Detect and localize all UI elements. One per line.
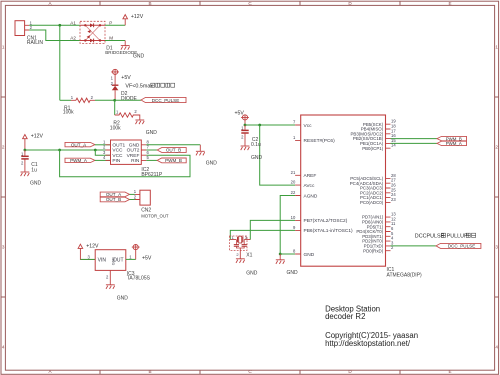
wire XTAL1 pin9 to resonator: [230, 230, 295, 239]
svg-text:1: 1: [2, 45, 5, 50]
svg-text:2: 2: [2, 145, 5, 150]
svg-text:3: 3: [2, 245, 5, 250]
wire OUT_B to CN2 pin2: [130, 199, 135, 201]
svg-text:OUT1: OUT1: [112, 143, 125, 149]
connector CN2: [134, 189, 169, 218]
svg-text:0.1u: 0.1u: [251, 142, 261, 148]
microcontroller IC1 ATMEGA8: [291, 115, 422, 278]
svg-text:7: 7: [293, 120, 296, 125]
svg-text:AVcc: AVcc: [304, 183, 315, 189]
svg-text:1: 1: [293, 135, 296, 140]
wire PWM_A to pin4: [95, 159, 111, 161]
wire pin5 to PWM_B: [146, 159, 157, 161]
label flag OUT_A (CN2): [100, 192, 129, 197]
svg-text:VCC: VCC: [112, 153, 123, 159]
svg-text:DCC_PULSE: DCC_PULSE: [152, 98, 180, 103]
wire pin3 TxD to DCC_PULSE: [391, 245, 437, 247]
svg-text:5: 5: [147, 155, 150, 160]
diode D2: [111, 75, 138, 102]
svg-text:1: 1: [71, 95, 74, 100]
svg-text:VIN: VIN: [98, 258, 107, 264]
svg-text:Vcc: Vcc: [304, 123, 313, 129]
capacitor C1: [21, 150, 38, 173]
svg-text:1: 1: [495, 45, 498, 50]
svg-text:+5V: +5V: [121, 75, 131, 81]
ground (IC1 GND/AGND): [279, 254, 281, 260]
svg-text:PULLUP: PULLUP: [447, 234, 468, 240]
wire pin15 to PWM_A: [391, 142, 438, 144]
svg-text:B: B: [148, 369, 151, 374]
wire junction down to R2: [114, 100, 116, 115]
wire VREF loop: [60, 150, 190, 177]
svg-text:2: 2: [495, 145, 498, 150]
svg-text:GND: GND: [30, 180, 42, 186]
ground (IC2 pin8): [199, 145, 201, 152]
svg-text:RIN: RIN: [131, 158, 140, 164]
label flag PWM_A (IC2): [65, 158, 95, 163]
svg-text:http://desktopstation.net/: http://desktopstation.net/: [325, 339, 411, 348]
resistor R2: [110, 109, 140, 131]
wire gnd junction to pin8: [280, 253, 295, 255]
supply +5V (clamp): [111, 69, 119, 74]
svg-text:AGND: AGND: [304, 193, 318, 199]
svg-text:10: 10: [291, 215, 296, 220]
wire +12V rail to IC2 pin2: [25, 149, 111, 151]
note DCCPULSE PULLUP: [415, 233, 476, 239]
wire OUT_A to pin1: [95, 144, 111, 146]
svg-text:4: 4: [103, 155, 106, 160]
svg-text:PWM_A: PWM_A: [446, 141, 462, 146]
svg-text:1: 1: [111, 76, 114, 81]
svg-text:100k: 100k: [63, 109, 74, 115]
svg-text:VREF: VREF: [127, 153, 140, 159]
label flag DCC_PULSE (right): [436, 243, 481, 248]
svg-text:3: 3: [88, 254, 91, 259]
svg-text:decoder R2: decoder R2: [325, 312, 365, 321]
svg-text:MOTOR_OUT: MOTOR_OUT: [141, 213, 169, 218]
label flag PWM_B (IC1): [437, 136, 467, 141]
wire +5V rail to Vcc pin7: [245, 124, 295, 126]
supply +5V (C2): [241, 115, 249, 120]
svg-text:M: M: [109, 36, 113, 41]
node GND junction: [279, 253, 282, 256]
wire CN1 pin1 to bridge A1: [29, 24, 80, 26]
node +12V/C1 junction: [24, 149, 27, 152]
svg-text:100k: 100k: [110, 126, 121, 132]
svg-text:OUT_B: OUT_B: [166, 148, 181, 153]
ground (C1): [21, 172, 30, 176]
wire XTAL2 pin10 to resonator: [250, 220, 295, 239]
svg-text:GND: GND: [117, 295, 129, 301]
wire junction down to R1: [59, 25, 61, 100]
svg-text:PB7(XTAL2/TOSC2): PB7(XTAL2/TOSC2): [304, 218, 348, 224]
supply +12V (bridge): [124, 19, 126, 26]
svg-text:B: B: [148, 1, 151, 6]
wire AGND to gnd rail: [280, 196, 295, 255]
svg-text:PB6(XTAL1-in/TOSC1): PB6(XTAL1-in/TOSC1): [304, 228, 354, 234]
svg-text:PC0(ADC0): PC0(ADC0): [360, 200, 384, 205]
svg-text:2: 2: [21, 160, 24, 165]
svg-text:2: 2: [241, 135, 244, 140]
label flag OUT_B (CN2): [100, 197, 129, 202]
wire CN1 pin2 to bridge A2: [29, 30, 80, 41]
supply +5V (IC3): [135, 250, 137, 260]
svg-text:+12V: +12V: [131, 14, 144, 20]
node AVcc branch junction: [258, 124, 261, 127]
svg-text:OUT_B: OUT_B: [106, 197, 121, 202]
supply +12V (IC2): [23, 135, 28, 139]
svg-text:X1: X1: [246, 252, 252, 258]
ground (IC3): [109, 270, 111, 284]
svg-text:GND: GND: [129, 143, 140, 149]
svg-text:9: 9: [293, 225, 296, 230]
ground (R2): [135, 120, 144, 124]
ground (bridge M): [124, 41, 126, 46]
wire +12V to IC3 VIN: [80, 258, 95, 260]
svg-text:GND: GND: [304, 252, 315, 258]
svg-text:RESET#(PC6): RESET#(PC6): [304, 138, 336, 144]
svg-text:E: E: [448, 1, 451, 6]
svg-text:+5V: +5V: [235, 110, 245, 116]
bridge rectifier D1: [70, 20, 137, 55]
svg-text:TA78L05S: TA78L05S: [127, 276, 151, 282]
node D2/R1/R2 junction: [113, 99, 116, 102]
svg-text:GND: GND: [251, 155, 263, 161]
svg-text:BP6211P: BP6211P: [141, 172, 162, 178]
svg-text:+12V: +12V: [31, 134, 44, 140]
svg-text:1u: 1u: [31, 167, 37, 173]
svg-text:1: 1: [116, 110, 119, 115]
svg-text:PIN: PIN: [112, 158, 121, 164]
svg-text:2: 2: [91, 95, 94, 100]
svg-text:VCC: VCC: [112, 148, 123, 154]
svg-text:GND: GND: [287, 270, 299, 276]
svg-text:2: 2: [236, 252, 239, 257]
ground (X1): [236, 259, 245, 263]
svg-text:3: 3: [495, 245, 498, 250]
svg-text:22: 22: [291, 190, 296, 195]
wire bridge M to gnd: [105, 40, 125, 42]
regulator IC3: [88, 250, 151, 282]
svg-text:PWM_A: PWM_A: [70, 158, 88, 163]
wire pin16 to PWM_B: [391, 138, 438, 140]
ground (C2): [241, 146, 250, 150]
svg-text:+12V: +12V: [86, 244, 99, 250]
wire bridge P to +12V: [105, 24, 125, 26]
connector CN1: [15, 20, 43, 46]
wire junction to DCC_PULSE flag: [115, 99, 141, 101]
svg-text:GND: GND: [112, 257, 116, 265]
svg-text:8: 8: [293, 249, 296, 254]
wire VCC branch to IC2 pin3: [95, 150, 110, 155]
label flag PWM_B (IC2): [157, 158, 186, 163]
svg-text:DCC_PULSE: DCC_PULSE: [448, 244, 476, 249]
junction node on A1 wire: [58, 24, 61, 27]
svg-text:A1: A1: [70, 20, 76, 25]
wire OUT_A to CN2 pin1: [130, 193, 135, 195]
svg-text:4: 4: [495, 345, 498, 350]
wire pin8 to gnd: [146, 144, 200, 146]
wire IC3 OUT to +5V: [126, 258, 136, 260]
svg-text:+5V: +5V: [142, 256, 152, 262]
wire pin7 to OUT_B: [146, 149, 157, 151]
supply +12V (IC3): [78, 244, 83, 248]
svg-text:GND: GND: [206, 161, 218, 167]
node VREF branch junction: [58, 149, 61, 152]
svg-text:GND: GND: [133, 53, 145, 59]
svg-text:A2: A2: [70, 36, 76, 41]
svg-text:P: P: [109, 20, 112, 25]
svg-text:E: E: [448, 369, 451, 374]
capacitor C2: [241, 125, 261, 148]
note VF<0.5max: [125, 83, 174, 89]
svg-text:2: 2: [30, 25, 33, 30]
node +5V/C2 junction: [244, 124, 247, 127]
svg-text:PB0(ICP1): PB0(ICP1): [362, 146, 384, 151]
svg-text:VF<0.5max: VF<0.5max: [125, 83, 153, 89]
resistor R1: [60, 95, 115, 115]
node VCC branch junction: [94, 149, 97, 152]
svg-text:DIODE: DIODE: [121, 96, 138, 102]
svg-text:DCCPULSE: DCCPULSE: [415, 234, 445, 240]
label flag PWM_A (IC1): [437, 141, 467, 146]
svg-text:23: 23: [391, 197, 396, 202]
svg-text:PWM_B: PWM_B: [165, 158, 182, 163]
svg-text:2: 2: [134, 109, 137, 114]
title text block: [325, 304, 418, 348]
svg-text:1: 1: [129, 254, 132, 259]
svg-text:PD0(RxD): PD0(RxD): [363, 248, 384, 253]
svg-text:ATMEGA8(DIP): ATMEGA8(DIP): [387, 272, 423, 278]
svg-text:21: 21: [291, 170, 296, 175]
label flag OUT_A (IC2): [65, 142, 95, 147]
resonator X1: [230, 235, 253, 259]
svg-text:20: 20: [291, 180, 296, 185]
label flag OUT_B: [157, 148, 186, 153]
svg-text:RAILIN: RAILIN: [27, 40, 44, 46]
svg-text:4: 4: [2, 345, 5, 350]
svg-text:OUT2: OUT2: [127, 148, 140, 154]
label flag DCC_PULSE (left): [141, 97, 186, 103]
svg-text:OUT_A: OUT_A: [71, 142, 87, 147]
svg-text:2: 2: [134, 194, 137, 199]
wire AVcc branch: [260, 125, 295, 185]
svg-text:GND: GND: [246, 270, 257, 276]
svg-text:GND: GND: [146, 130, 158, 136]
motor driver IC2: [103, 139, 163, 178]
svg-text:AREF: AREF: [304, 173, 317, 179]
svg-text:2: 2: [106, 274, 109, 279]
